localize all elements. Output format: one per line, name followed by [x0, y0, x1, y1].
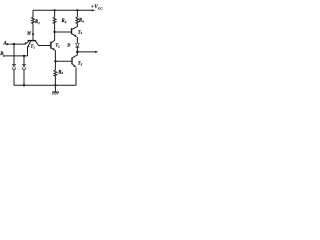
svg-text:M: M [26, 30, 31, 35]
svg-text:T4: T4 [78, 29, 83, 35]
svg-text:A: A [3, 42, 7, 47]
svg-text:R2: R2 [62, 19, 67, 24]
svg-text:T3: T3 [78, 61, 83, 67]
svg-text:R1: R1 [35, 20, 40, 25]
svg-text:D: D [66, 42, 71, 47]
svg-text:T2: T2 [55, 43, 60, 49]
svg-text:+VCC: +VCC [91, 5, 103, 10]
svg-text:R3: R3 [58, 70, 63, 75]
svg-text:R4: R4 [79, 19, 84, 24]
svg-text:T1: T1 [31, 44, 36, 50]
